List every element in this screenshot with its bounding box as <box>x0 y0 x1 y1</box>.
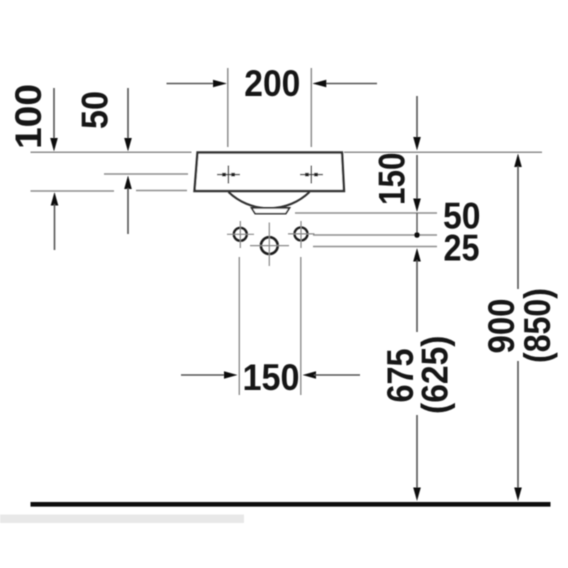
extension line 150 bottom right <box>300 257 302 395</box>
wall/rim reference line left <box>31 151 192 153</box>
wall/rim reference line right <box>344 151 542 153</box>
crosshair drain hole <box>250 223 289 267</box>
svg-text:200: 200 <box>244 63 300 104</box>
svg-text:(850): (850) <box>517 288 558 363</box>
chain segment 50-25 with node dot <box>414 213 420 238</box>
dimension 100 down arrow <box>50 88 58 152</box>
svg-text:900: 900 <box>481 299 522 354</box>
level line 100 left segment a <box>31 190 115 192</box>
dimension 150 down arrow to 50-line <box>413 155 421 212</box>
level line 100 left segment b <box>136 190 187 192</box>
dimension 900 up arrow to rim <box>514 154 522 290</box>
faucet hole cross right <box>300 166 323 184</box>
drain trapezoid <box>252 208 290 214</box>
level line holes right <box>313 234 437 236</box>
dimension 675 up arrow <box>413 248 421 332</box>
dimension 150 bottom left arrow <box>181 371 238 379</box>
svg-text:25: 25 <box>444 228 480 269</box>
basin outline <box>195 153 345 192</box>
svg-text:150: 150 <box>372 153 413 206</box>
basin bowl arc <box>229 192 310 208</box>
floor line <box>31 502 551 507</box>
dimension 150 bottom right arrow <box>303 371 361 379</box>
extension line 200 left <box>227 68 229 147</box>
dimension 900 down arrow to floor <box>514 361 522 501</box>
dimension 200 left arrow <box>167 80 228 88</box>
level line 25 right <box>313 246 437 248</box>
mounting hole left <box>234 228 247 241</box>
level line 50 right <box>295 212 437 214</box>
level line 50 left <box>104 173 188 175</box>
mounting hole right <box>295 227 308 240</box>
faucet hole cross left <box>217 166 240 184</box>
svg-text:100: 100 <box>8 84 49 149</box>
dimension 50 down arrow <box>124 88 132 152</box>
extension line 150 bottom left <box>238 257 240 395</box>
extension line 200 right <box>310 68 312 147</box>
floor shadow band <box>0 515 244 524</box>
dimension 100 up arrow <box>51 192 59 250</box>
dimension 200 right arrow <box>312 80 377 88</box>
svg-text:(625): (625) <box>415 336 456 415</box>
svg-text:50: 50 <box>75 91 116 129</box>
svg-text:150: 150 <box>243 357 300 398</box>
drain hole middle <box>261 237 278 254</box>
dimension 675 down arrow to floor <box>413 415 421 501</box>
crosshair mounting hole left <box>227 221 254 248</box>
crosshair mounting hole right <box>288 221 315 248</box>
dimension 150 top down arrow to rim <box>413 96 421 151</box>
dimension 50 up arrow <box>124 176 132 235</box>
